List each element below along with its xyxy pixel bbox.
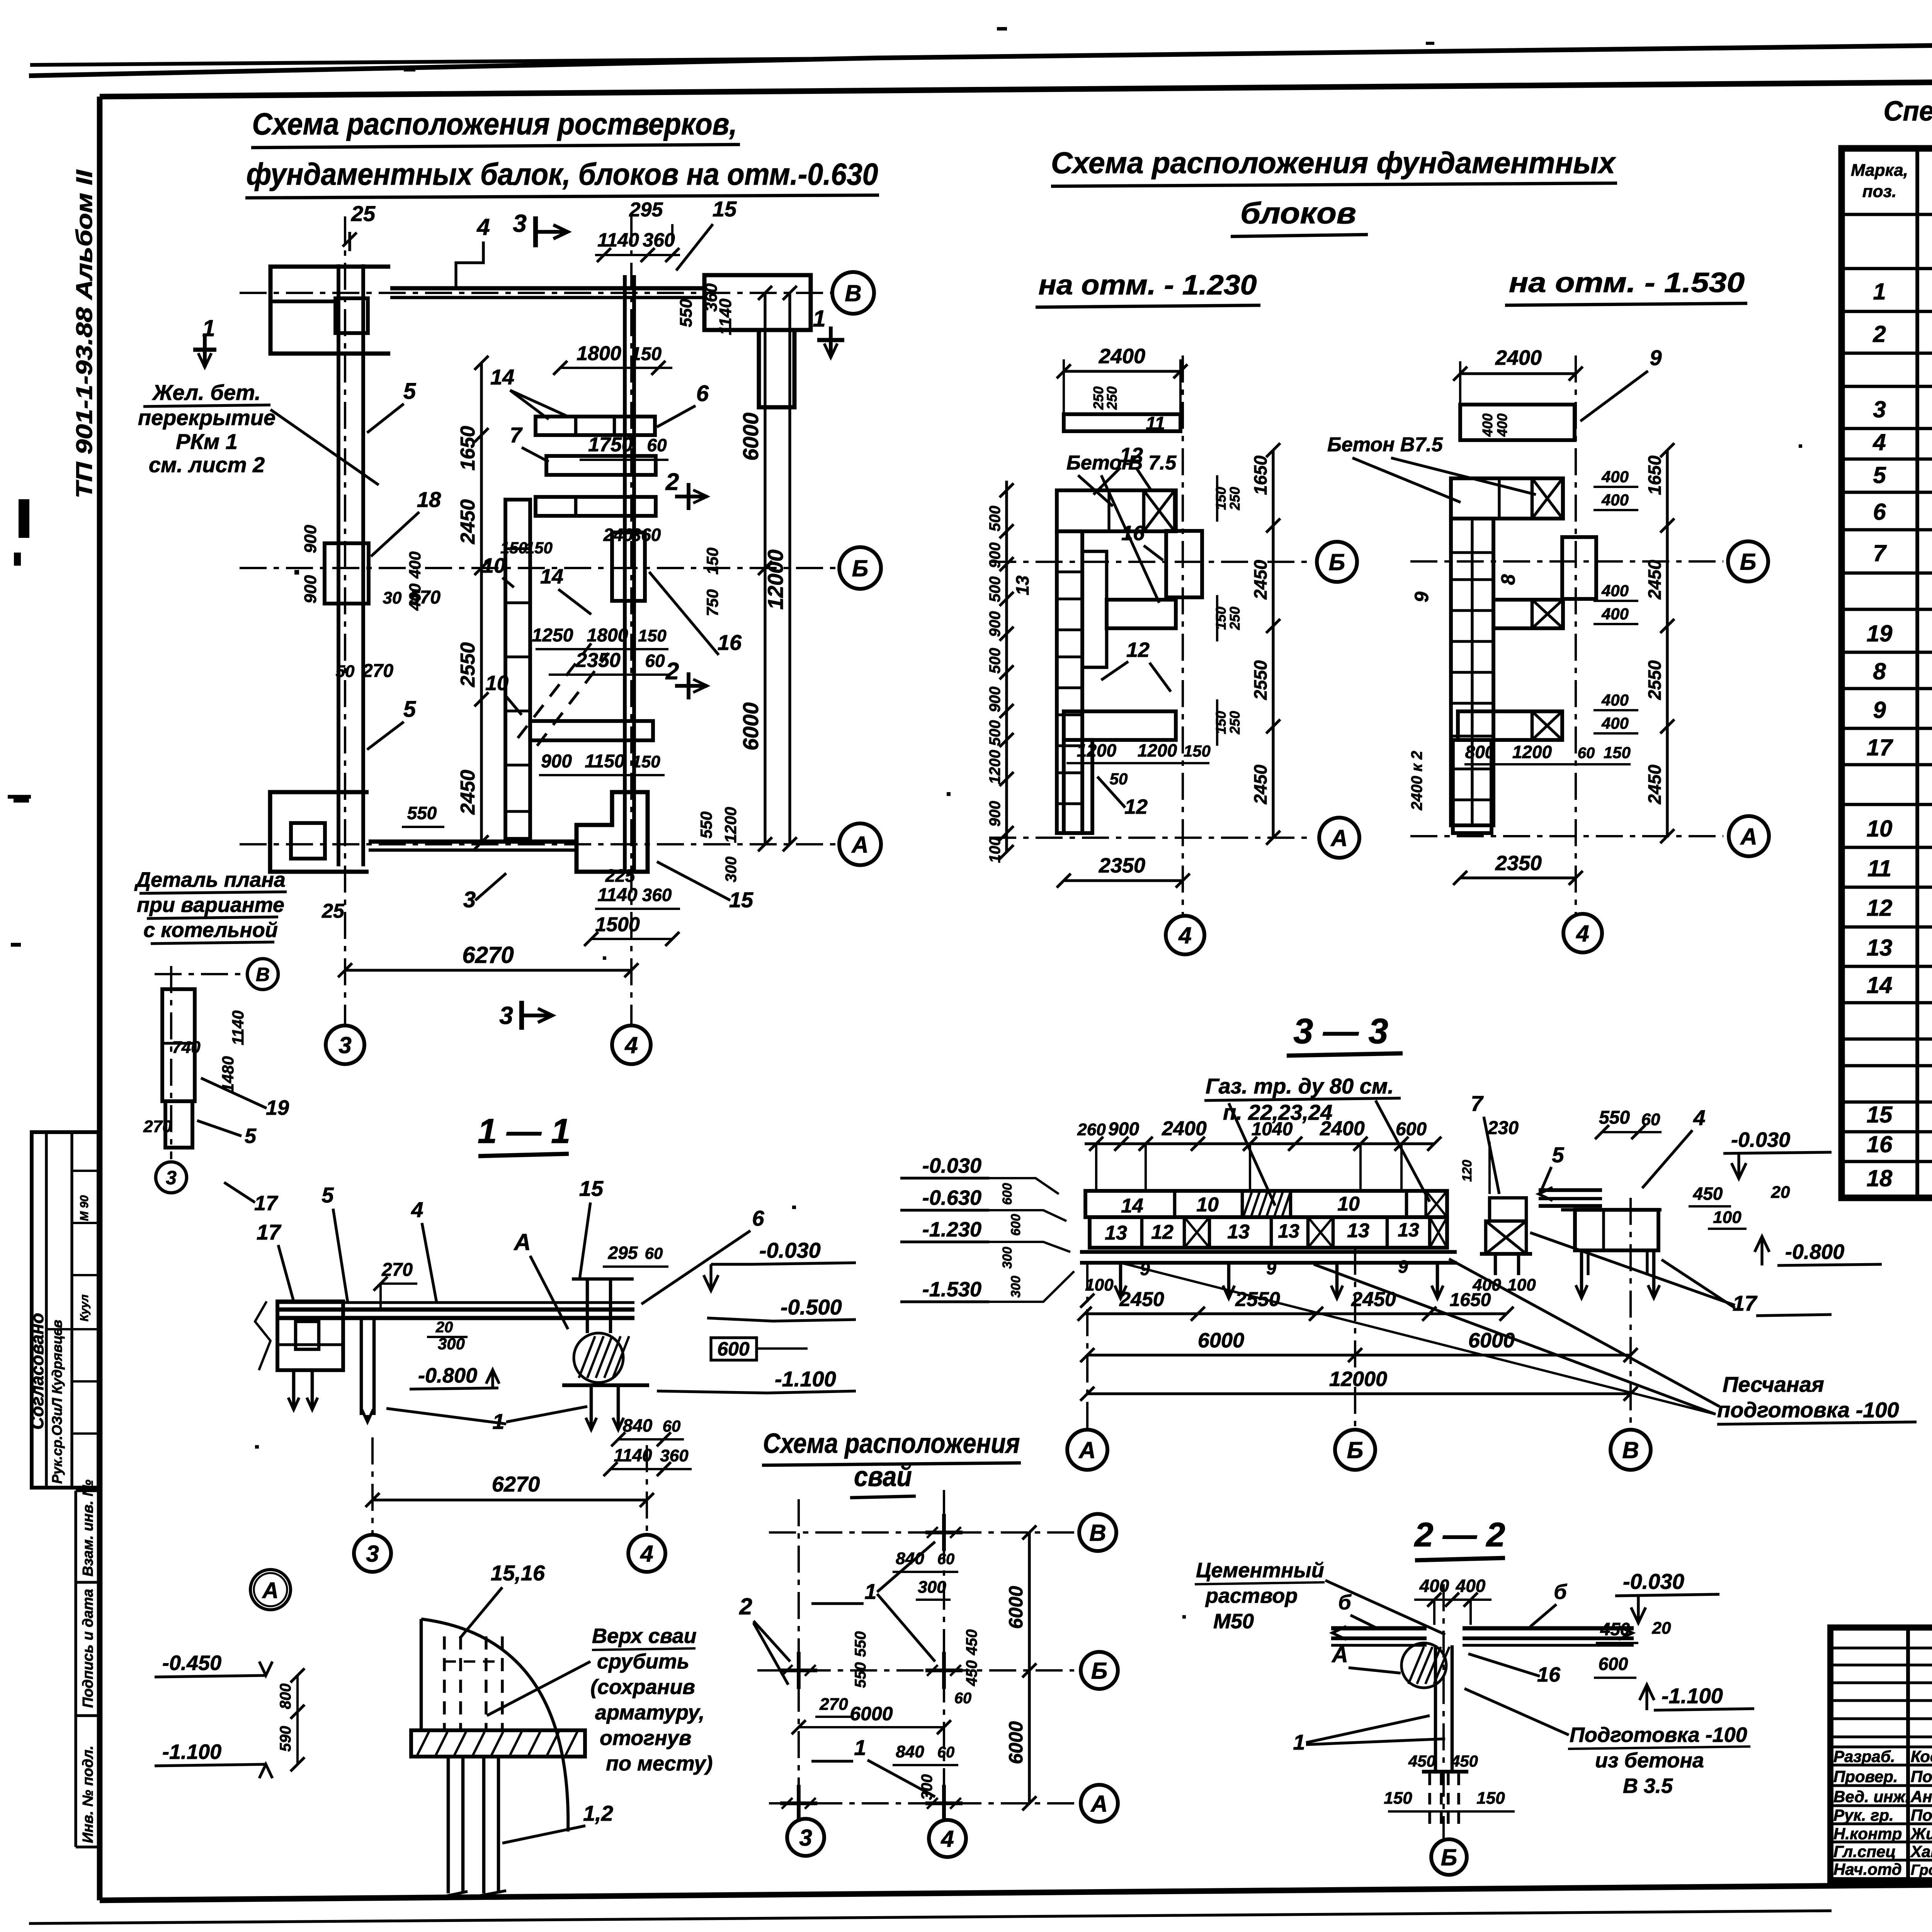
plan middle wall strip 10 xyxy=(505,500,530,839)
svg-text:840: 840 xyxy=(896,1742,924,1761)
plan right beam 3 double line xyxy=(623,275,627,872)
svg-text:10: 10 xyxy=(485,672,509,695)
right fragment piles xyxy=(1580,1250,1583,1298)
scheme1 block top arm xyxy=(1057,490,1176,531)
svg-text:5: 5 xyxy=(1552,1143,1564,1167)
svg-text:3: 3 xyxy=(463,887,476,912)
svg-text:2: 2 xyxy=(739,1594,752,1619)
scheme1 dim 2350 bottom xyxy=(1064,879,1183,882)
section 1-1 middle pier xyxy=(360,1318,363,1415)
svg-text:с котельной: с котельной xyxy=(143,918,278,942)
svg-text:5: 5 xyxy=(1873,462,1886,488)
scheme2 block top arm xyxy=(1451,478,1563,519)
svg-text:18: 18 xyxy=(417,487,441,512)
plan section mark 3 bottom xyxy=(519,1001,524,1030)
svg-text:1200: 1200 xyxy=(1077,740,1117,760)
svg-text:550: 550 xyxy=(852,1631,869,1657)
svg-text:-0.800: -0.800 xyxy=(418,1364,477,1387)
section 2-2 cement leader xyxy=(1325,1580,1445,1634)
plan bottom-right rostverk L shape 15 xyxy=(577,792,648,872)
svg-text:60: 60 xyxy=(645,1244,663,1262)
svg-text:А: А xyxy=(1078,1437,1095,1463)
svg-text:500: 500 xyxy=(986,506,1003,532)
svg-text:А: А xyxy=(1331,1642,1348,1667)
svg-text:60: 60 xyxy=(937,1744,955,1761)
peschanaya leaders xyxy=(1449,1259,1719,1406)
svg-text:2450: 2450 xyxy=(1645,560,1665,600)
section 2-2 podgotovka leader xyxy=(1464,1689,1569,1735)
svg-text:900: 900 xyxy=(301,575,320,604)
svg-text:7: 7 xyxy=(1873,540,1887,566)
scheme2 mid arm xyxy=(1493,600,1563,628)
detail axis V circle xyxy=(247,959,278,990)
svg-text:свай: свай xyxy=(854,1461,912,1492)
scheme2 beton leaders xyxy=(1352,458,1461,502)
svg-text:3: 3 xyxy=(1873,396,1886,422)
section 1-1 ground break line xyxy=(255,1301,270,1370)
svg-text:6270: 6270 xyxy=(492,1472,540,1496)
subtitle -1.230 underline xyxy=(1036,305,1260,307)
svg-text:100: 100 xyxy=(986,837,1003,863)
svg-text:5: 5 xyxy=(403,379,416,404)
svg-text:300: 300 xyxy=(1000,1247,1015,1269)
svg-text:М 90: М 90 xyxy=(78,1195,91,1221)
svg-text:-0.500: -0.500 xyxy=(781,1295,842,1319)
scheme1 top block bar 11 xyxy=(1064,414,1180,431)
svg-text:9: 9 xyxy=(1873,697,1886,723)
scheme2 axis B line xyxy=(1410,560,1723,563)
svg-text:8: 8 xyxy=(1873,658,1886,684)
scheme2 bottom stem xyxy=(1453,740,1492,833)
scheme1 dims 1200 1200 150 xyxy=(1066,762,1209,764)
svg-text:50: 50 xyxy=(336,662,355,681)
detail element rects xyxy=(162,989,195,1101)
plan section mark 1 right xyxy=(817,338,844,342)
svg-text:б: б xyxy=(1338,1591,1352,1614)
svg-text:12000: 12000 xyxy=(763,549,787,610)
scheme2 dim 2350 bottom xyxy=(1460,876,1576,879)
svg-text:-0.030: -0.030 xyxy=(922,1154,981,1177)
svg-text:13: 13 xyxy=(1867,935,1893,961)
svg-text:3: 3 xyxy=(499,1002,513,1029)
svg-text:Б: Б xyxy=(1441,1845,1457,1871)
svg-text:300: 300 xyxy=(1009,1276,1023,1298)
svg-text:1750: 1750 xyxy=(588,434,633,456)
svg-text:16: 16 xyxy=(718,630,742,655)
plan axis V line xyxy=(240,292,831,294)
pile head vertical dim xyxy=(296,1675,299,1764)
svg-text:1200: 1200 xyxy=(986,750,1003,784)
plan axis A line xyxy=(240,843,838,845)
svg-text:3: 3 xyxy=(513,209,527,237)
svg-text:2550: 2550 xyxy=(457,642,479,687)
svg-text:1: 1 xyxy=(854,1735,866,1760)
svg-text:6000: 6000 xyxy=(738,702,763,751)
plan left wall panel 5 xyxy=(337,264,340,866)
plan bottom-left rostverk xyxy=(270,792,369,872)
svg-text:150: 150 xyxy=(1476,1789,1505,1808)
svg-text:3: 3 xyxy=(166,1167,177,1189)
svg-text:400: 400 xyxy=(1480,413,1495,437)
section 3-3 dims row 6000 6000 xyxy=(1087,1354,1631,1356)
svg-text:250: 250 xyxy=(1227,711,1243,735)
svg-text:400: 400 xyxy=(1601,605,1629,623)
section 3-3 dims row 2450 2550 2450 1650 xyxy=(1085,1312,1507,1315)
svg-text:1 — 1: 1 — 1 xyxy=(478,1112,570,1151)
detail A big circle xyxy=(250,1570,291,1610)
frame top border xyxy=(100,77,1932,97)
svg-text:15: 15 xyxy=(1867,1102,1893,1128)
svg-text:10: 10 xyxy=(1337,1193,1360,1215)
svg-text:4: 4 xyxy=(940,1826,954,1852)
scheme2 axis 4 circle xyxy=(1563,914,1602,952)
svg-text:17: 17 xyxy=(257,1220,282,1244)
svg-text:12: 12 xyxy=(1867,895,1893,921)
svg-text:360: 360 xyxy=(631,525,661,545)
svg-text:Бетон: Бетон xyxy=(1066,452,1134,474)
svg-text:15: 15 xyxy=(713,197,737,221)
section 3-3 block band bottom row xyxy=(1090,1217,1447,1248)
svg-text:3 — 3: 3 — 3 xyxy=(1293,1012,1388,1051)
svg-text:Вед. инж.: Вед. инж. xyxy=(1833,1787,1910,1806)
svg-text:19: 19 xyxy=(266,1096,289,1119)
svg-text:2400: 2400 xyxy=(1162,1117,1207,1140)
svg-text:60: 60 xyxy=(647,435,667,455)
section 2-2 left slab xyxy=(1331,1626,1427,1631)
svg-text:блоков: блоков xyxy=(1240,196,1356,230)
scheme1 axis A circle xyxy=(1319,818,1359,858)
svg-text:арматуру,: арматуру, xyxy=(595,1701,705,1724)
svg-text:4: 4 xyxy=(624,1032,638,1058)
svg-text:150: 150 xyxy=(631,344,662,364)
plan middle block row 14 second xyxy=(536,497,656,516)
svg-text:250: 250 xyxy=(1104,386,1120,410)
scheme1 vertical strip xyxy=(1057,531,1082,833)
svg-text:2350: 2350 xyxy=(1495,852,1542,875)
svg-text:2550: 2550 xyxy=(1645,660,1665,700)
section 3-3 level arrows xyxy=(989,1178,1059,1194)
svg-text:25: 25 xyxy=(351,201,376,226)
svg-text:2: 2 xyxy=(665,469,679,495)
svg-text:450: 450 xyxy=(1600,1619,1630,1639)
plan dim 6270 bottom xyxy=(345,969,631,971)
svg-text:11: 11 xyxy=(1867,855,1891,881)
svg-text:Гл.спец: Гл.спец xyxy=(1833,1842,1896,1861)
plan middle block row upper 14 xyxy=(536,417,655,435)
svg-text:2550: 2550 xyxy=(1235,1288,1280,1311)
svg-text:9: 9 xyxy=(1266,1258,1276,1278)
scheme2 dims 800 1200 60 150 xyxy=(1464,763,1631,765)
svg-text:1,2: 1,2 xyxy=(583,1801,613,1825)
svg-text:150: 150 xyxy=(1604,743,1631,762)
frame bottom border xyxy=(100,1879,1932,1900)
svg-text:Взам. инв. №: Взам. инв. № xyxy=(80,1480,96,1577)
svg-text:Деталь плана: Деталь плана xyxy=(134,868,286,891)
title block left row lines lower xyxy=(1830,1745,1932,1748)
svg-text:1800: 1800 xyxy=(587,625,628,646)
left edge tick xyxy=(8,795,31,799)
svg-text:2450: 2450 xyxy=(1119,1288,1164,1311)
svg-text:отогнув: отогнув xyxy=(600,1726,691,1750)
section 1-1 axis stubs xyxy=(371,1437,374,1533)
plan section mark 3 top xyxy=(533,216,538,247)
svg-text:2350: 2350 xyxy=(1099,854,1145,877)
svg-text:В: В xyxy=(1622,1437,1639,1463)
svg-text:360: 360 xyxy=(642,885,672,905)
svg-text:240: 240 xyxy=(603,525,633,545)
svg-text:60: 60 xyxy=(954,1690,972,1707)
svg-text:400: 400 xyxy=(1419,1576,1449,1596)
svg-text:Рук. гр.: Рук. гр. xyxy=(1833,1806,1894,1824)
svg-text:1040: 1040 xyxy=(1252,1119,1293,1139)
svg-text:-0.800: -0.800 xyxy=(1785,1240,1844,1264)
scheme2 hatched block mid xyxy=(1532,600,1563,628)
svg-text:Подготовка -100: Подготовка -100 xyxy=(1570,1723,1747,1747)
svg-text:500: 500 xyxy=(986,720,1003,746)
pile head detail arc xyxy=(421,1619,568,1832)
scheme1 beton leaders xyxy=(1078,475,1113,506)
svg-text:550: 550 xyxy=(1599,1107,1630,1128)
svg-text:1200: 1200 xyxy=(1512,742,1552,762)
svg-text:Схема расположения ростверко: Схема расположения ростверков, xyxy=(252,107,737,141)
scheme2 axis 4 line xyxy=(1575,355,1577,914)
svg-text:1140: 1140 xyxy=(716,298,735,335)
svg-text:60: 60 xyxy=(937,1551,955,1568)
svg-text:подготовка -100: подготовка -100 xyxy=(1717,1398,1899,1422)
svg-text:6: 6 xyxy=(696,381,709,406)
section 2-2 center pier xyxy=(1434,1645,1437,1774)
pile head detail slab hatched xyxy=(411,1730,585,1757)
svg-text:Костылев: Костылев xyxy=(1911,1747,1932,1765)
svg-text:60: 60 xyxy=(1578,745,1595,762)
scheme2 axis B circle xyxy=(1728,541,1768,582)
spec table column lines xyxy=(1915,148,1919,1198)
pile head detail left edge xyxy=(420,1619,423,1730)
svg-text:4: 4 xyxy=(1576,921,1589,947)
svg-text:8: 8 xyxy=(1497,574,1519,585)
svg-text:-1.230: -1.230 xyxy=(922,1218,981,1241)
svg-text:10: 10 xyxy=(1867,816,1893,842)
section 2-2 axis B circle xyxy=(1442,1584,1445,1839)
svg-text:1200: 1200 xyxy=(721,807,740,843)
svg-text:19: 19 xyxy=(1867,621,1893,646)
scheme2 right dim line xyxy=(1666,450,1668,836)
svg-text:2450: 2450 xyxy=(1250,764,1270,804)
svg-text:14: 14 xyxy=(540,565,563,588)
scheme1 mid arm xyxy=(1107,600,1176,628)
svg-text:600: 600 xyxy=(1000,1183,1015,1205)
svg-text:Н.контр: Н.контр xyxy=(1833,1825,1902,1843)
scheme1 bottom arm xyxy=(1064,711,1176,740)
margin cell Podpis i data xyxy=(76,1714,100,1717)
svg-text:2550: 2550 xyxy=(1250,660,1270,700)
plan axis B circle xyxy=(839,547,881,589)
svg-text:14: 14 xyxy=(1121,1195,1143,1217)
svg-text:150: 150 xyxy=(1213,607,1229,630)
section 2-2 right slab xyxy=(1463,1626,1634,1631)
frame left border xyxy=(97,97,103,1900)
svg-text:295: 295 xyxy=(608,1243,638,1263)
section 3-3 dim verticals xyxy=(1095,1144,1097,1191)
svg-text:16: 16 xyxy=(1537,1663,1561,1686)
scheme2 hatched block bottom xyxy=(1532,711,1562,740)
svg-text:ТП 901-1-93.88 Альбом II: ТП 901-1-93.88 Альбом II xyxy=(72,169,97,498)
svg-text:450: 450 xyxy=(963,1629,980,1656)
title scheme1 line2 underline xyxy=(245,195,879,198)
svg-text:800: 800 xyxy=(1465,742,1495,762)
section 3-3 X piles in band xyxy=(1184,1217,1209,1248)
svg-text:5: 5 xyxy=(321,1183,334,1207)
section 3-3 top dim line xyxy=(1085,1142,1434,1145)
plan axis 3 circle xyxy=(326,1026,364,1064)
plan right dim line 6000 xyxy=(764,293,766,844)
svg-text:15: 15 xyxy=(729,888,753,912)
svg-text:Цементный: Цементный xyxy=(1196,1559,1324,1582)
svg-text:100: 100 xyxy=(1713,1208,1742,1227)
svg-text:Ханин: Ханин xyxy=(1910,1842,1932,1861)
section 1-1 hatched circle xyxy=(574,1333,623,1383)
svg-text:6000: 6000 xyxy=(1198,1329,1244,1352)
section 3-3 base slab xyxy=(1080,1250,1457,1254)
svg-text:Б: Б xyxy=(852,556,868,582)
section 2-2 piles below xyxy=(1428,1774,1431,1824)
scan speckles xyxy=(404,68,415,71)
svg-text:3: 3 xyxy=(366,1541,379,1567)
svg-text:600: 600 xyxy=(1396,1119,1427,1139)
section 3-3 title underline xyxy=(1287,1053,1403,1056)
svg-text:30: 30 xyxy=(383,588,402,607)
svg-text:900: 900 xyxy=(301,525,320,553)
plan top-right rostverk T shape 15 xyxy=(704,275,811,330)
section 3-3 axis circles xyxy=(1086,1263,1088,1430)
section 1-1 left wall block xyxy=(277,1301,343,1370)
svg-text:1150: 1150 xyxy=(585,751,625,772)
svg-text:-1.100: -1.100 xyxy=(775,1367,836,1391)
svg-text:900: 900 xyxy=(986,801,1003,827)
section 1-1 left wall piles xyxy=(292,1370,296,1410)
svg-text:-0.030: -0.030 xyxy=(759,1238,821,1262)
svg-text:раствор: раствор xyxy=(1205,1584,1298,1607)
svg-text:4: 4 xyxy=(476,214,490,240)
pile head detail dashed piles xyxy=(443,1636,446,1730)
svg-text:поз.: поз. xyxy=(1862,182,1896,201)
plan wall block 18 at axis B xyxy=(325,543,369,604)
section 3-3 band top hatched blocks xyxy=(1243,1192,1291,1216)
svg-text:400: 400 xyxy=(1601,582,1629,600)
svg-text:450: 450 xyxy=(1451,1752,1478,1770)
svg-text:400: 400 xyxy=(1494,413,1510,437)
section 3-3 block band top row xyxy=(1085,1191,1447,1217)
svg-text:230: 230 xyxy=(1487,1118,1519,1138)
svg-text:150: 150 xyxy=(1184,742,1211,760)
scheme2 axis A circle xyxy=(1729,816,1769,856)
svg-text:срубить: срубить xyxy=(597,1650,689,1673)
scheme2 axis A line xyxy=(1410,835,1723,837)
svg-text:В: В xyxy=(1089,1520,1106,1546)
svg-text:1: 1 xyxy=(864,1579,876,1604)
svg-text:4: 4 xyxy=(1872,429,1886,455)
svg-text:590: 590 xyxy=(277,1726,294,1752)
plan middle bottom block row xyxy=(530,721,653,740)
svg-text:Согласовано: Согласовано xyxy=(27,1313,47,1430)
svg-text:6000: 6000 xyxy=(1468,1329,1515,1352)
pile scheme axis 3 xyxy=(798,1499,800,1816)
scheme1 dim 2400 top xyxy=(1064,370,1180,372)
svg-text:17: 17 xyxy=(1867,735,1893,760)
svg-text:270: 270 xyxy=(143,1117,172,1136)
section 2-2 title underline xyxy=(1415,1558,1505,1560)
detail axis vertical xyxy=(170,966,172,1159)
svg-text:Инв. № подл.: Инв. № подл. xyxy=(80,1745,96,1843)
svg-text:-1.100: -1.100 xyxy=(162,1740,221,1764)
svg-text:550: 550 xyxy=(852,1662,869,1688)
section 1-1 right pier upper xyxy=(586,1279,589,1333)
svg-text:2450: 2450 xyxy=(457,770,479,815)
svg-text:4: 4 xyxy=(1693,1105,1705,1130)
pile scheme pile cross marks xyxy=(925,1531,963,1534)
svg-text:450: 450 xyxy=(1408,1752,1435,1770)
scheme1 axis 4 circle xyxy=(1166,916,1204,954)
svg-text:Спецификация к схемам распо: Спецификация к схемам расположения роств… xyxy=(1884,96,1932,127)
svg-text:2450: 2450 xyxy=(1645,764,1665,804)
scheme1 axis B circle xyxy=(1317,542,1357,582)
svg-text:550: 550 xyxy=(697,811,715,838)
svg-text:-1.100: -1.100 xyxy=(1662,1684,1723,1708)
pile scheme axis B xyxy=(757,1669,1074,1672)
spec table outer border xyxy=(1842,148,1932,1198)
svg-text:17: 17 xyxy=(254,1192,279,1215)
svg-text:А: А xyxy=(1740,824,1757,850)
pile scheme axis 4 xyxy=(943,1490,945,1816)
svg-text:Грозобойнова: Грозобойнова xyxy=(1911,1862,1932,1878)
scheme2 top block bar xyxy=(1460,405,1575,440)
svg-text:1: 1 xyxy=(1293,1730,1305,1754)
svg-text:Б: Б xyxy=(1091,1658,1107,1684)
svg-text:-1.530: -1.530 xyxy=(922,1278,981,1301)
svg-text:Рук.ср.ОЗиЛ Кудрявцев: Рук.ср.ОЗиЛ Кудрявцев xyxy=(49,1320,65,1484)
plan top-left rostverk RSm xyxy=(270,267,390,354)
svg-text:2400 к 2: 2400 к 2 xyxy=(1408,751,1425,811)
svg-text:12000: 12000 xyxy=(1329,1367,1387,1391)
svg-text:600: 600 xyxy=(717,1338,750,1360)
svg-text:270: 270 xyxy=(819,1695,848,1714)
svg-text:295: 295 xyxy=(629,199,663,221)
gas pipe leaders xyxy=(1229,1103,1275,1206)
svg-text:360: 360 xyxy=(643,229,675,251)
ink smudge left edge xyxy=(19,499,29,538)
margin cell Inv No podl xyxy=(76,1845,100,1848)
svg-text:12: 12 xyxy=(1126,638,1150,662)
scheme1 axis A line xyxy=(989,837,1314,839)
svg-text:15: 15 xyxy=(579,1176,604,1201)
section 1-1 title underline xyxy=(478,1154,569,1156)
svg-text:В 7.5: В 7.5 xyxy=(1128,452,1177,474)
scheme1 vertical strip inner xyxy=(1082,551,1107,667)
title scheme2 line1 underline xyxy=(1051,183,1617,186)
svg-text:450: 450 xyxy=(1693,1184,1723,1204)
svg-text:1250: 1250 xyxy=(532,625,573,646)
pile head text leader xyxy=(487,1662,590,1716)
plan section mark 2 lower xyxy=(675,684,707,688)
svg-text:13: 13 xyxy=(1227,1221,1250,1243)
svg-text:250: 250 xyxy=(1227,487,1243,510)
right fragment slab lines xyxy=(1561,1208,1662,1212)
svg-text:120: 120 xyxy=(1460,1160,1475,1182)
svg-text:-0.030: -0.030 xyxy=(1623,1569,1684,1594)
svg-text:25: 25 xyxy=(321,900,345,922)
svg-text:20: 20 xyxy=(1771,1183,1790,1202)
svg-text:1140: 1140 xyxy=(597,229,639,251)
